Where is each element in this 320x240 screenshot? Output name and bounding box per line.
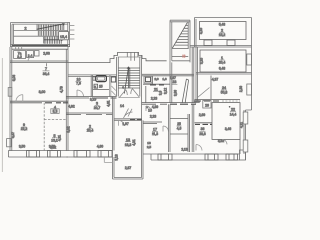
bottom windows [27,151,61,158]
svg-text:4,60: 4,60 [97,145,103,149]
wall y104 extension left [142,103,170,105]
svg-text:20,7: 20,7 [94,106,101,110]
vertical wall right of room 2 [113,97,115,151]
south face with window piers [196,46,252,48]
svg-text:2,5: 2,5 [147,145,152,149]
svg-text:20,4: 20,4 [87,129,94,133]
outer walls [11,23,71,48]
svg-text:1: 1 [221,56,223,60]
svg-text:24: 24 [222,86,226,90]
room 22 [212,103,240,140]
stair underside diagonals [182,79,188,103]
svg-text:15: 15 [148,108,152,112]
svg-text:2,23: 2,23 [151,96,157,100]
wall under room 7 [10,100,68,102]
svg-text:50,8: 50,8 [221,90,228,94]
svg-text:2,0: 2,0 [154,77,159,81]
hatched wall mid-left [195,122,213,124]
door arc row [28,56,33,61]
right edge jog [244,110,252,160]
red mark [182,54,185,58]
svg-text:8,3: 8,3 [53,109,58,113]
svg-text:14: 14 [120,104,124,108]
svg-text:11,3: 11,3 [152,132,158,136]
svg-text:4,79: 4,79 [59,86,63,93]
stair arrow [124,67,130,94]
svg-text:4,6: 4,6 [177,126,182,130]
svg-text:4,61: 4,61 [106,100,110,106]
svg-text:14,4: 14,4 [230,113,237,117]
landing below stair [172,60,190,62]
small closets [27,51,34,58]
svg-text:15,4: 15,4 [60,35,67,39]
svg-text:2,23: 2,23 [150,115,156,119]
triangle stair [172,22,187,48]
svg-text:3,12: 3,12 [163,88,167,94]
svg-text:3,02: 3,02 [67,126,71,132]
porch step ticks [127,52,138,57]
svg-text:15,2: 15,2 [219,33,226,37]
svg-text:2,87: 2,87 [125,166,131,170]
svg-text:3,52: 3,52 [49,145,55,149]
entry door jambs [131,52,135,60]
svg-text:17: 17 [153,127,157,131]
svg-text:36,4: 36,4 [43,72,50,76]
ticks to the right [70,26,75,40]
svg-text:2,88: 2,88 [194,100,200,104]
svg-text:3,18: 3,18 [115,154,119,160]
window on left wall upper [8,88,12,97]
wall below rooms 10/15 [66,96,116,98]
hatched wall bottom of 24 [195,98,241,100]
svg-text:7,9: 7,9 [76,82,81,86]
corridor strip [192,104,194,152]
svg-text:4,89: 4,89 [152,105,158,109]
stair hatch middle flight [38,31,57,36]
wall y113 [66,113,112,115]
svg-text:3,96: 3,96 [173,90,177,96]
svg-text:2,39: 2,39 [239,86,243,92]
stair hatch upper flight [38,25,64,30]
shaft right of bathroom [109,75,115,97]
svg-text:4,11: 4,11 [240,122,244,128]
window on left wall lower [7,139,12,147]
middle bottom wall [66,151,112,158]
svg-text:4,37: 4,37 [212,78,218,82]
svg-text:2,69: 2,69 [199,113,205,117]
stair arrow diagonal [37,24,65,44]
svg-text:21: 21 [154,88,158,92]
bottom wall left wing [8,151,68,158]
dashed partition horizontal [44,118,66,120]
right wall windows [247,84,252,95]
svg-text:3,9: 3,9 [159,91,163,96]
door arcs near bottom [196,145,202,151]
right small rooms [170,114,190,152]
right wall shared with courtyard [66,47,68,151]
svg-text:6,08: 6,08 [12,75,16,81]
svg-text:3,50: 3,50 [19,145,25,149]
big room 7 [46,63,48,66]
svg-text:22: 22 [231,108,235,112]
svg-text:15: 15 [99,84,103,88]
svg-text:26: 26 [205,103,209,107]
lower door leaves [119,90,127,98]
svg-text:1,6: 1,6 [162,77,167,81]
svg-text:3,16: 3,16 [199,28,203,34]
divider in 24 block [210,76,212,100]
inner top line [12,23,68,25]
svg-text:2: 2 [221,29,223,33]
svg-text:5: 5 [54,134,56,138]
svg-text:2,13: 2,13 [181,147,187,151]
svg-text:8,00: 8,00 [39,90,46,94]
svg-text:3: 3 [96,102,98,106]
left outer wall [10,47,12,151]
room 2 [14,24,68,44]
stair treads [118,68,140,88]
top room row [10,49,68,62]
bathroom with tub [96,76,107,82]
far-left courtyard line [1,58,3,172]
svg-text:3,2: 3,2 [17,55,22,59]
svg-text:7: 7 [45,67,47,71]
svg-text:4,92: 4,92 [68,105,74,109]
dashed partition vertical [43,103,45,151]
svg-text:4,31: 4,31 [132,139,136,145]
room 7a [14,51,26,59]
stair hatch lower flight [44,37,61,44]
door leaf left room [198,88,210,98]
stair arrow horizontal [44,39,63,41]
svg-text:ж: ж [94,84,96,88]
svg-text:6,37: 6,37 [11,132,15,138]
svg-text:5,48: 5,48 [219,23,225,27]
svg-text:25: 25 [177,122,181,126]
dark wall below room 23 [170,102,196,104]
svg-text:6,48: 6,48 [219,67,225,71]
divider right of 17 [169,104,171,152]
svg-text:20,4: 20,4 [219,61,226,65]
svg-text:20,8: 20,8 [199,132,205,136]
svg-text:23: 23 [172,80,176,84]
svg-text:22,2: 22,2 [21,127,28,131]
15.4 landing label [59,32,69,40]
svg-text:3,46: 3,46 [225,127,231,131]
svg-text:1,97: 1,97 [122,122,128,126]
svg-text:2,63: 2,63 [43,51,50,55]
svg-text:18,3: 18,3 [125,143,132,147]
svg-text:13: 13 [126,138,130,142]
ticks below block [16,47,22,50]
svg-text:36: 36 [201,127,205,131]
top wall [68,75,117,77]
divider [91,75,92,97]
svg-text:3,15: 3,15 [200,58,204,64]
lobby 14 [118,97,140,99]
svg-text:4,31: 4,31 [57,135,61,141]
